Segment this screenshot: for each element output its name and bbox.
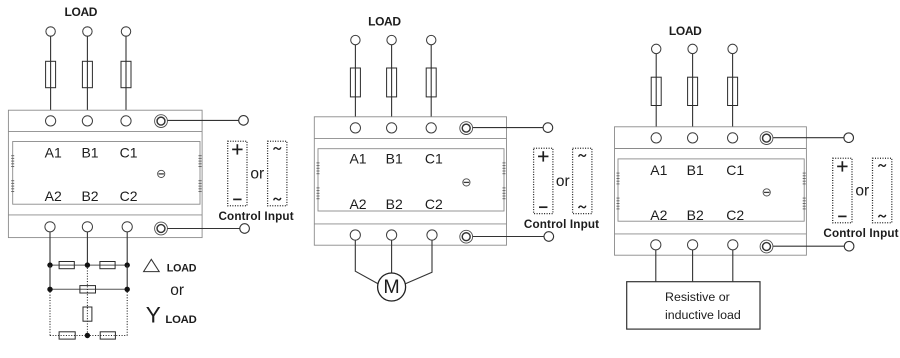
load line end circle phase B (left) — [83, 27, 92, 36]
output terminal 3 bottom (middle) — [427, 230, 437, 240]
svg-text:B2: B2 — [386, 196, 403, 212]
output terminal 1 bottom (right) — [651, 240, 661, 250]
heat-sink grip ticks on label plate edges (right) — [617, 173, 806, 209]
output terminal 2 bottom (right) — [688, 240, 698, 250]
svg-text:B2: B2 — [687, 207, 704, 223]
svg-text:A2: A2 — [45, 188, 62, 204]
wye star point junction dot (left) — [85, 333, 90, 338]
svg-text:C1: C1 — [425, 151, 443, 167]
delta resistor A-C (left) — [80, 286, 96, 293]
svg-text:A2: A2 — [650, 207, 667, 223]
wire phase B to motor (middle) — [391, 240, 393, 273]
svg-text:LOAD: LOAD — [167, 263, 197, 275]
fuse phase A (right) — [651, 77, 661, 105]
wire phase C load line (middle) — [430, 45, 432, 123]
control input screw terminal bottom (right) — [760, 240, 773, 253]
svg-text:LOAD: LOAD — [669, 24, 702, 38]
dotted wye wire phase B down (left) — [86, 268, 88, 336]
plus symbol (right) — [837, 161, 847, 171]
load line end circle phase C (left) — [121, 27, 130, 36]
output terminal 1 top (middle) — [350, 123, 360, 133]
control wire top end circle (middle) — [543, 123, 553, 133]
control wire top (left) — [168, 119, 239, 121]
svg-text:or: or — [556, 173, 570, 190]
svg-text:B1: B1 — [687, 162, 704, 178]
dotted wye wire phase A down (left) — [49, 292, 51, 336]
output terminal 3 top (right) — [728, 133, 738, 143]
load line end circle phase B (middle) — [387, 35, 396, 44]
LED indicator symbol (right) — [763, 189, 770, 196]
SSR device outline (right diagram) — [615, 127, 807, 255]
resistive/inductive load box (right) — [627, 282, 760, 329]
heat-sink grip ticks on label plate edges (left) — [11, 156, 201, 192]
wire phase B load line (middle) — [391, 45, 393, 123]
svg-text:B2: B2 — [81, 188, 98, 204]
wire phase B load line (right) — [692, 54, 694, 133]
SSR inner label plate (right) — [618, 159, 804, 221]
motor M1 circle (middle) — [378, 273, 406, 301]
junction dot B on delta bus (left) — [85, 262, 90, 267]
wire phase A terminal to delta bus (left) — [49, 232, 51, 265]
control wire top end circle (right) — [844, 133, 854, 143]
wye resistor phase A (left) — [59, 332, 75, 339]
dotted wye star bus (left) — [50, 335, 127, 337]
load line end circle phase A (right) — [652, 44, 661, 53]
svg-text:B1: B1 — [386, 151, 403, 167]
fuse phase C (right) — [728, 77, 738, 105]
svg-text:C2: C2 — [425, 196, 443, 212]
wire phase C load line (right) — [732, 54, 734, 133]
wire phase C load line (left) — [125, 36, 127, 116]
svg-text:A1: A1 — [45, 144, 62, 160]
delta A-C bus wire (left) — [50, 288, 127, 290]
wire phase A load line (right) — [655, 54, 657, 133]
control input screw terminal top (middle) — [460, 122, 473, 135]
svg-text:C1: C1 — [120, 144, 138, 160]
LED indicator symbol (middle) — [463, 179, 470, 186]
control input screw terminal bottom (middle) — [460, 230, 473, 243]
SSR device outline (left diagram) — [8, 110, 202, 237]
SSR bottom band divider line (left) — [8, 214, 202, 216]
DC control option dashed box (right) — [833, 158, 852, 223]
wire phase B to load box (right) — [692, 250, 694, 282]
heat-sink grip ticks on label plate edges (middle) — [317, 163, 506, 199]
wire phase C terminal to delta bus (left) — [126, 232, 128, 265]
wire delta bus to A-C bus left side (left) — [49, 265, 51, 289]
junction dot A on delta bus (left) — [47, 262, 52, 267]
wire phase A to load box (right) — [655, 250, 657, 282]
delta resistor A-B (left) — [59, 262, 74, 269]
output terminal 2 top (middle) — [387, 123, 397, 133]
fuse phase A (left) — [46, 61, 56, 87]
svg-text:or: or — [250, 166, 264, 183]
AC tilde symbol bottom (right) — [879, 215, 886, 217]
fuse phase C (middle) — [426, 68, 436, 97]
svg-text:A1: A1 — [349, 151, 366, 167]
output terminal 2 bottom (left) — [82, 222, 92, 232]
wire phase B terminal to delta bus (left) — [86, 232, 88, 265]
SSR bottom band divider line (middle) — [314, 223, 506, 225]
load line end circle phase A (left) — [46, 27, 55, 36]
svg-text:Resistive or: Resistive or — [665, 290, 730, 304]
SSR bottom band divider line (right) — [615, 233, 807, 235]
svg-text:C2: C2 — [120, 188, 138, 204]
svg-text:Control Input: Control Input — [218, 210, 293, 223]
wire delta bus to A-C bus right side (left) — [126, 265, 128, 289]
AC tilde symbol top (middle) — [579, 154, 586, 156]
SSR inner label plate (middle) — [318, 149, 504, 211]
LED indicator symbol (left) — [158, 170, 165, 177]
AC tilde symbol bottom (middle) — [579, 206, 586, 208]
svg-text:Control Input: Control Input — [524, 218, 599, 231]
svg-text:A2: A2 — [349, 196, 366, 212]
svg-text:LOAD: LOAD — [165, 314, 196, 326]
dotted wye wire phase C down (left) — [126, 292, 128, 336]
junction dot A on A-C bus (left) — [47, 287, 52, 292]
AC control option dashed box (left) — [268, 141, 287, 206]
SSR top band divider line (right) — [615, 148, 807, 150]
output terminal 3 top (middle) — [426, 123, 436, 133]
junction dot C on delta bus (left) — [125, 262, 130, 267]
wire phase A to motor (middle) — [355, 240, 379, 285]
wire phase A load line (middle) — [354, 45, 356, 123]
control wire bottom (left) — [168, 228, 240, 230]
SSR device outline (middle diagram) — [314, 117, 506, 245]
AC tilde symbol bottom (left) — [274, 198, 281, 200]
output terminal 1 bottom (middle) — [350, 230, 360, 240]
svg-text:or: or — [855, 183, 869, 200]
minus symbol (left) — [233, 198, 241, 200]
SSR top band divider line (middle) — [314, 138, 506, 140]
SSR inner label plate (left) — [13, 142, 200, 205]
AC tilde symbol top (right) — [879, 164, 886, 166]
plus symbol (middle) — [538, 151, 548, 161]
output terminal 2 top (right) — [688, 133, 698, 143]
output terminal 1 bottom (left) — [45, 222, 55, 232]
control input screw terminal top (left) — [155, 115, 168, 128]
svg-text:Control Input: Control Input — [823, 227, 898, 240]
output terminal 3 top (left) — [121, 116, 131, 126]
output terminal 3 bottom (left) — [122, 222, 132, 232]
fuse phase A (middle) — [350, 68, 360, 97]
output terminal 1 top (left) — [46, 116, 56, 126]
svg-text:LOAD: LOAD — [368, 15, 401, 29]
control wire bottom end circle (left) — [240, 224, 250, 234]
control wire bottom (middle) — [473, 236, 544, 238]
wye resistor phase B (left) — [83, 307, 92, 321]
AC tilde symbol top (left) — [274, 147, 281, 149]
output terminal 3 bottom (right) — [728, 240, 738, 250]
SSR top band divider line (left) — [8, 131, 202, 133]
load line end circle phase B (right) — [688, 44, 697, 53]
DC control option dashed box (middle) — [534, 148, 553, 213]
delta bus AB-BC wire (left) — [50, 264, 127, 266]
control wire bottom (right) — [773, 245, 844, 247]
fuse phase B (middle) — [387, 68, 397, 97]
minus symbol (middle) — [539, 206, 547, 208]
svg-text:Y: Y — [146, 303, 161, 328]
svg-text:A1: A1 — [650, 162, 667, 178]
AC control option dashed box (middle) — [573, 148, 592, 213]
wire phase B load line (left) — [86, 36, 88, 116]
control wire bottom end circle (middle) — [544, 232, 554, 242]
control input screw terminal top (right) — [760, 132, 773, 145]
fuse phase B (left) — [82, 61, 92, 87]
wye resistor phase C (left) — [100, 332, 115, 339]
wire phase C to load box (right) — [732, 250, 734, 282]
svg-text:B1: B1 — [81, 144, 98, 160]
svg-text:M: M — [383, 276, 399, 298]
minus symbol (right) — [838, 215, 846, 217]
control wire bottom end circle (right) — [844, 241, 854, 251]
wire phase C to motor (middle) — [405, 240, 432, 284]
load line end circle phase A (middle) — [351, 35, 360, 44]
delta symbol (left) — [144, 259, 160, 271]
DC control option dashed box (left) — [228, 141, 247, 206]
junction dot C on A-C bus (left) — [125, 287, 130, 292]
output terminal 1 top (right) — [651, 133, 661, 143]
control wire top (right) — [773, 137, 844, 139]
wire phase A load line (left) — [50, 36, 52, 116]
fuse phase B (right) — [688, 77, 698, 105]
fuse phase C (left) — [121, 61, 131, 87]
plus symbol (left) — [232, 144, 242, 154]
svg-text:LOAD: LOAD — [64, 5, 97, 19]
output terminal 2 bottom (middle) — [387, 230, 397, 240]
output terminal 2 top (left) — [82, 116, 92, 126]
svg-text:or: or — [170, 282, 184, 299]
delta resistor B-C (left) — [100, 262, 115, 269]
control wire top end circle (left) — [239, 116, 249, 126]
svg-text:inductive load: inductive load — [665, 308, 741, 322]
svg-text:C1: C1 — [726, 162, 744, 178]
svg-text:C2: C2 — [726, 207, 744, 223]
load line end circle phase C (right) — [728, 44, 737, 53]
control wire top (middle) — [473, 127, 543, 129]
load line end circle phase C (middle) — [427, 35, 436, 44]
control input screw terminal bottom (left) — [155, 222, 168, 235]
AC control option dashed box (right) — [873, 158, 892, 223]
